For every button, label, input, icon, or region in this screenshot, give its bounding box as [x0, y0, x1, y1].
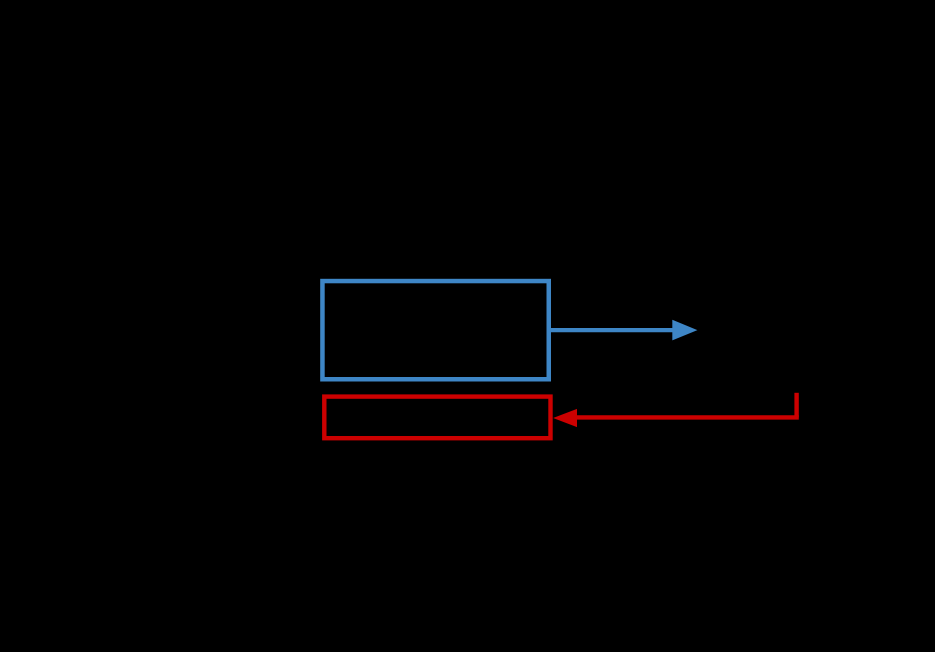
blue arrowhead — [672, 320, 697, 341]
red connector horizontal segment — [577, 415, 799, 419]
red arrowhead — [553, 409, 577, 427]
red connector vertical segment — [794, 393, 798, 418]
red box — [324, 397, 550, 439]
blue arrow shaft — [549, 328, 674, 332]
blue box — [322, 281, 548, 379]
